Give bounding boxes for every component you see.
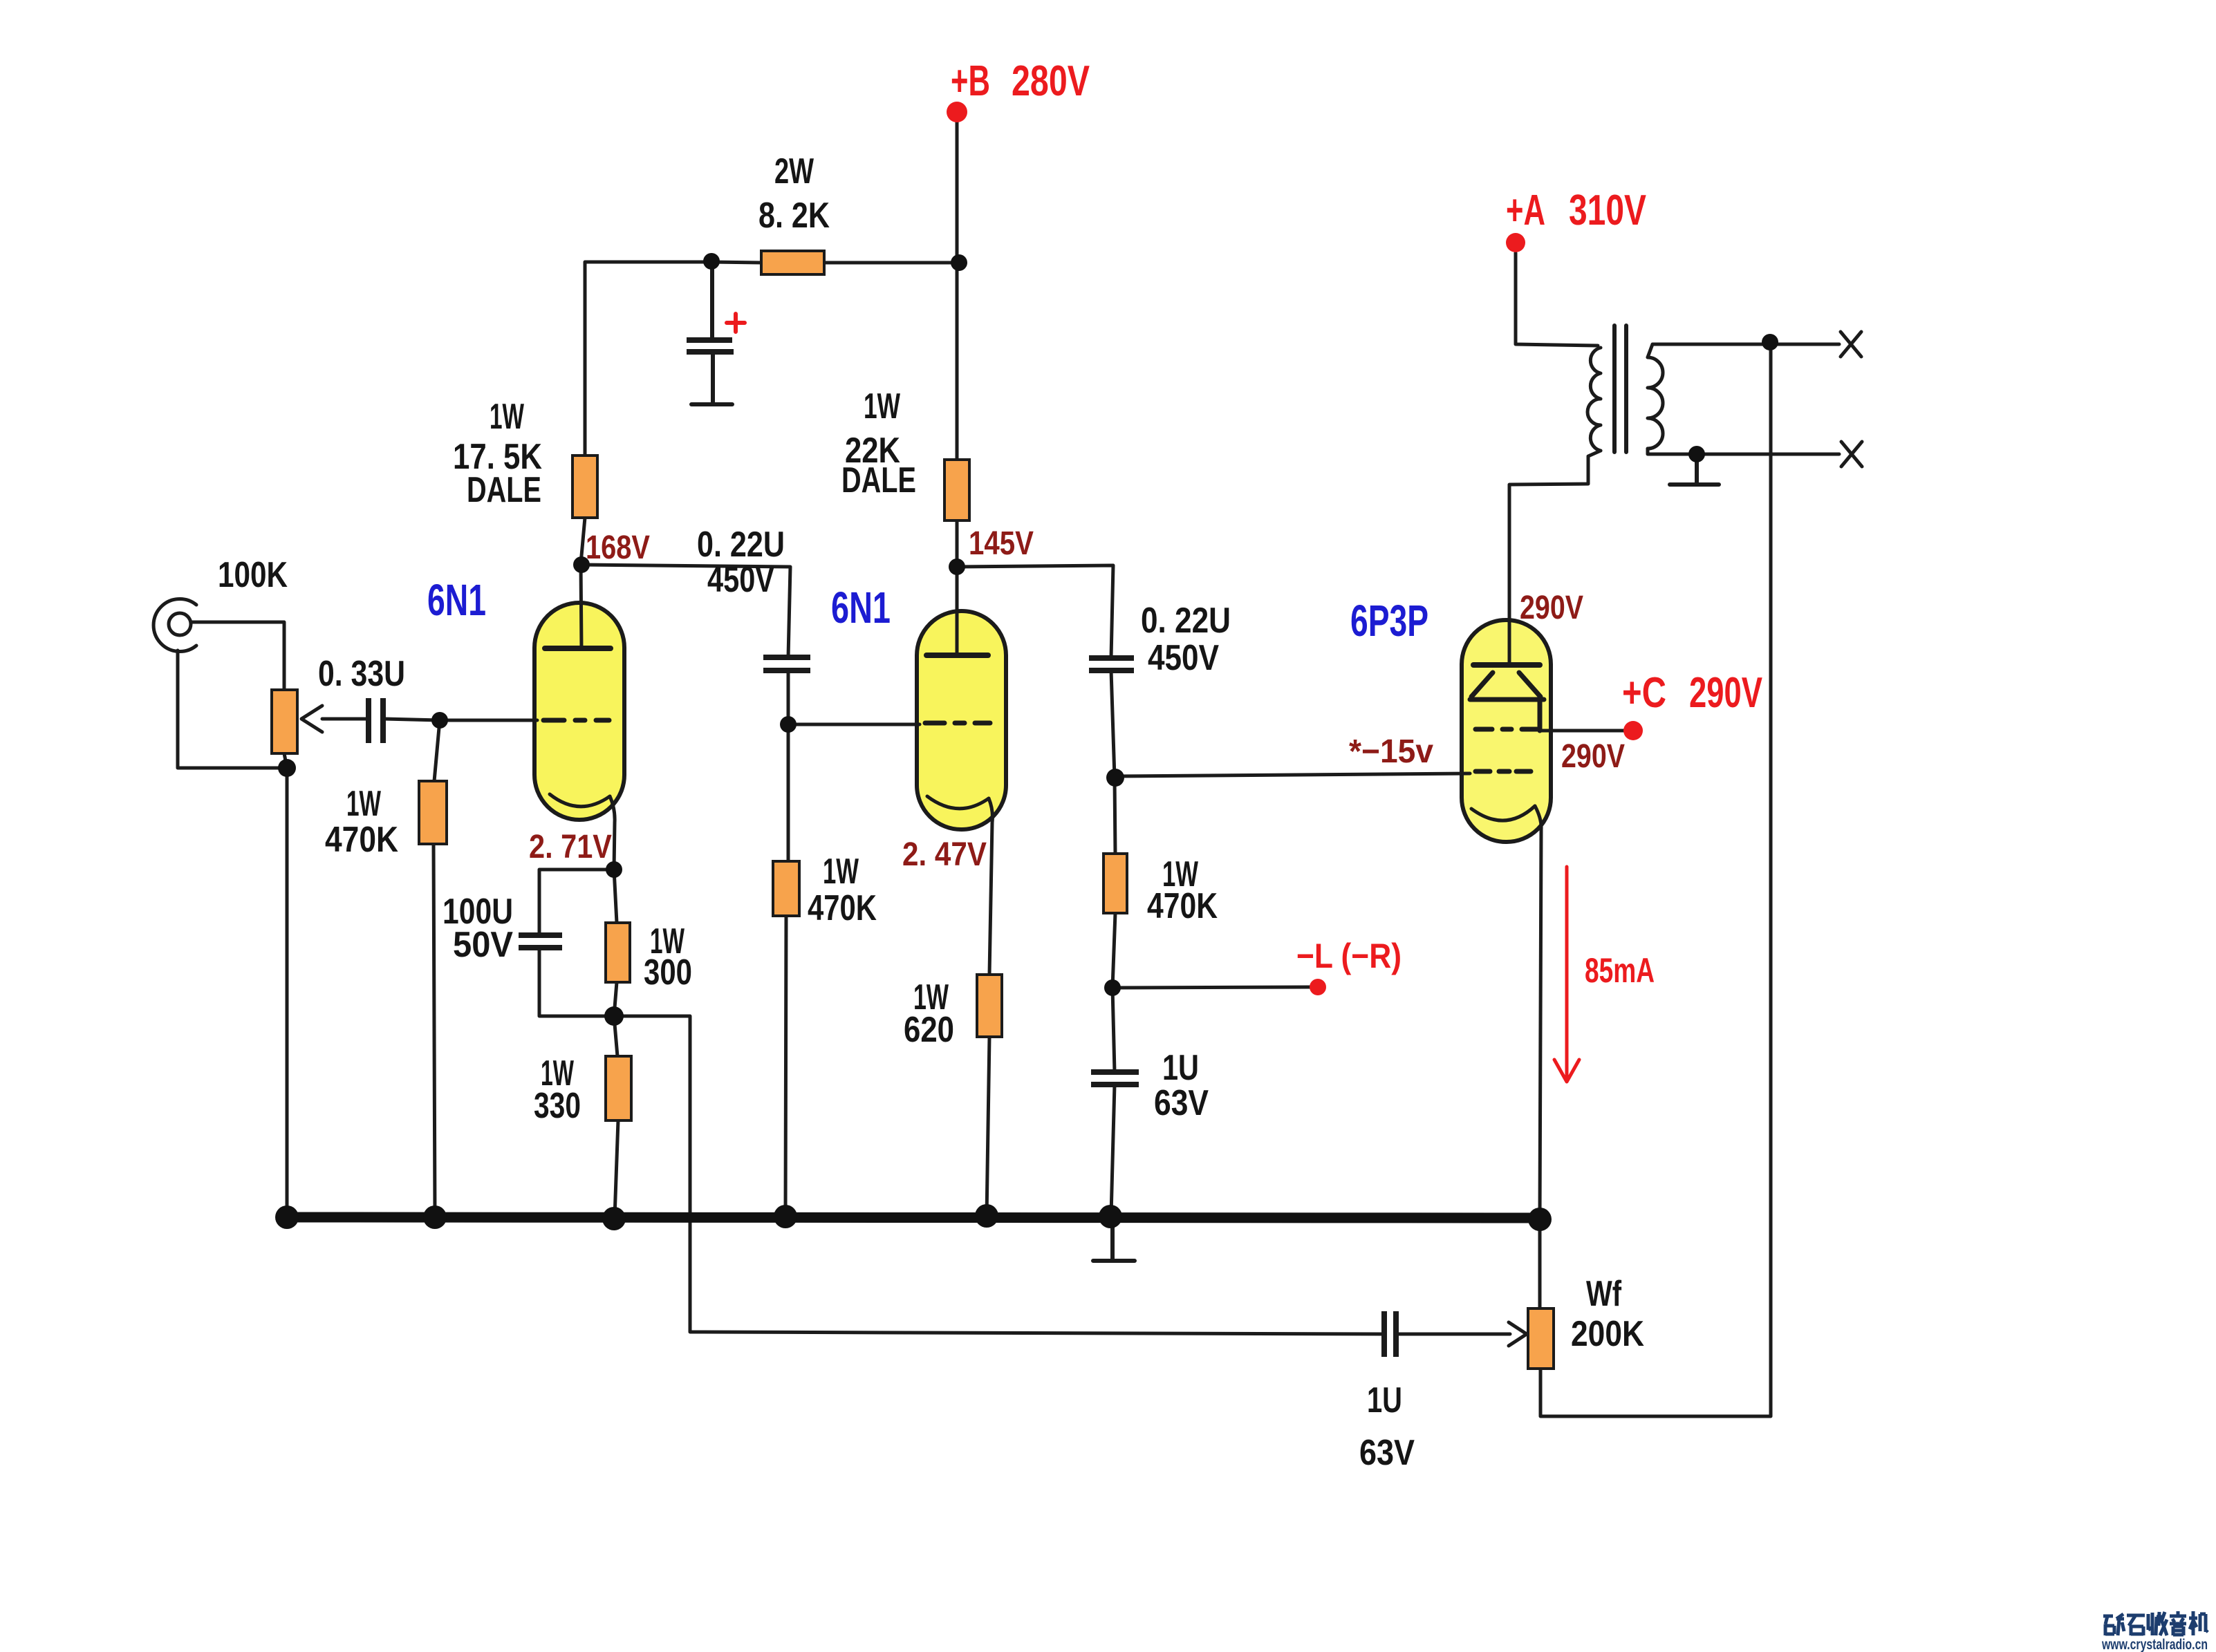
svg-text:470K: 470K	[325, 820, 398, 860]
svg-text:470K: 470K	[808, 888, 877, 928]
svg-text:2. 47V: 2. 47V	[902, 836, 987, 873]
svg-text:2W: 2W	[774, 151, 814, 191]
svg-text:DALE: DALE	[467, 470, 541, 510]
svg-text:168V: 168V	[586, 529, 650, 566]
svg-text:300: 300	[644, 952, 692, 993]
svg-text:280V: 280V	[1012, 57, 1090, 105]
svg-text:*−15v: *−15v	[1349, 733, 1433, 770]
svg-text:www.crystalradio.cn: www.crystalradio.cn	[2101, 1637, 2208, 1652]
svg-text:100K: 100K	[218, 555, 288, 595]
svg-text:620: 620	[904, 1010, 954, 1050]
svg-text:6N1: 6N1	[831, 583, 891, 632]
svg-text:145V: 145V	[969, 525, 1034, 562]
svg-text:−L (−R): −L (−R)	[1296, 937, 1402, 975]
svg-text:200K: 200K	[1571, 1314, 1644, 1354]
svg-text:330: 330	[534, 1086, 581, 1126]
svg-text:1W: 1W	[864, 386, 901, 426]
svg-text:1U: 1U	[1367, 1380, 1402, 1420]
svg-text:63V: 63V	[1154, 1083, 1209, 1123]
svg-text:290V: 290V	[1520, 590, 1583, 626]
svg-text:0. 33U: 0. 33U	[318, 654, 405, 694]
svg-text:+A: +A	[1506, 187, 1545, 234]
svg-text:+B: +B	[951, 57, 990, 105]
svg-text:+C: +C	[1622, 669, 1666, 717]
svg-text:1U: 1U	[1162, 1048, 1199, 1088]
svg-text:2. 71V: 2. 71V	[529, 829, 612, 865]
svg-text:85mA: 85mA	[1585, 951, 1655, 990]
svg-text:1W: 1W	[823, 852, 859, 892]
svg-text:DALE: DALE	[841, 460, 916, 500]
svg-text:50V: 50V	[453, 925, 513, 965]
svg-text:290V: 290V	[1561, 738, 1625, 775]
svg-text:470K: 470K	[1147, 886, 1218, 926]
svg-text:Wf: Wf	[1586, 1274, 1622, 1314]
svg-text:290V: 290V	[1689, 669, 1762, 717]
svg-text:450V: 450V	[1148, 638, 1219, 678]
svg-text:1W: 1W	[346, 784, 382, 824]
svg-text:0. 22U: 0. 22U	[1141, 601, 1231, 641]
svg-text:450V: 450V	[707, 560, 774, 600]
svg-text:6P3P: 6P3P	[1350, 596, 1428, 646]
svg-text:8. 2K: 8. 2K	[758, 196, 830, 236]
svg-text:6N1: 6N1	[427, 575, 486, 625]
svg-text:310V: 310V	[1569, 187, 1646, 234]
svg-text:1W: 1W	[490, 397, 525, 437]
svg-text:63V: 63V	[1359, 1433, 1415, 1473]
svg-text:0. 22U: 0. 22U	[697, 525, 785, 565]
